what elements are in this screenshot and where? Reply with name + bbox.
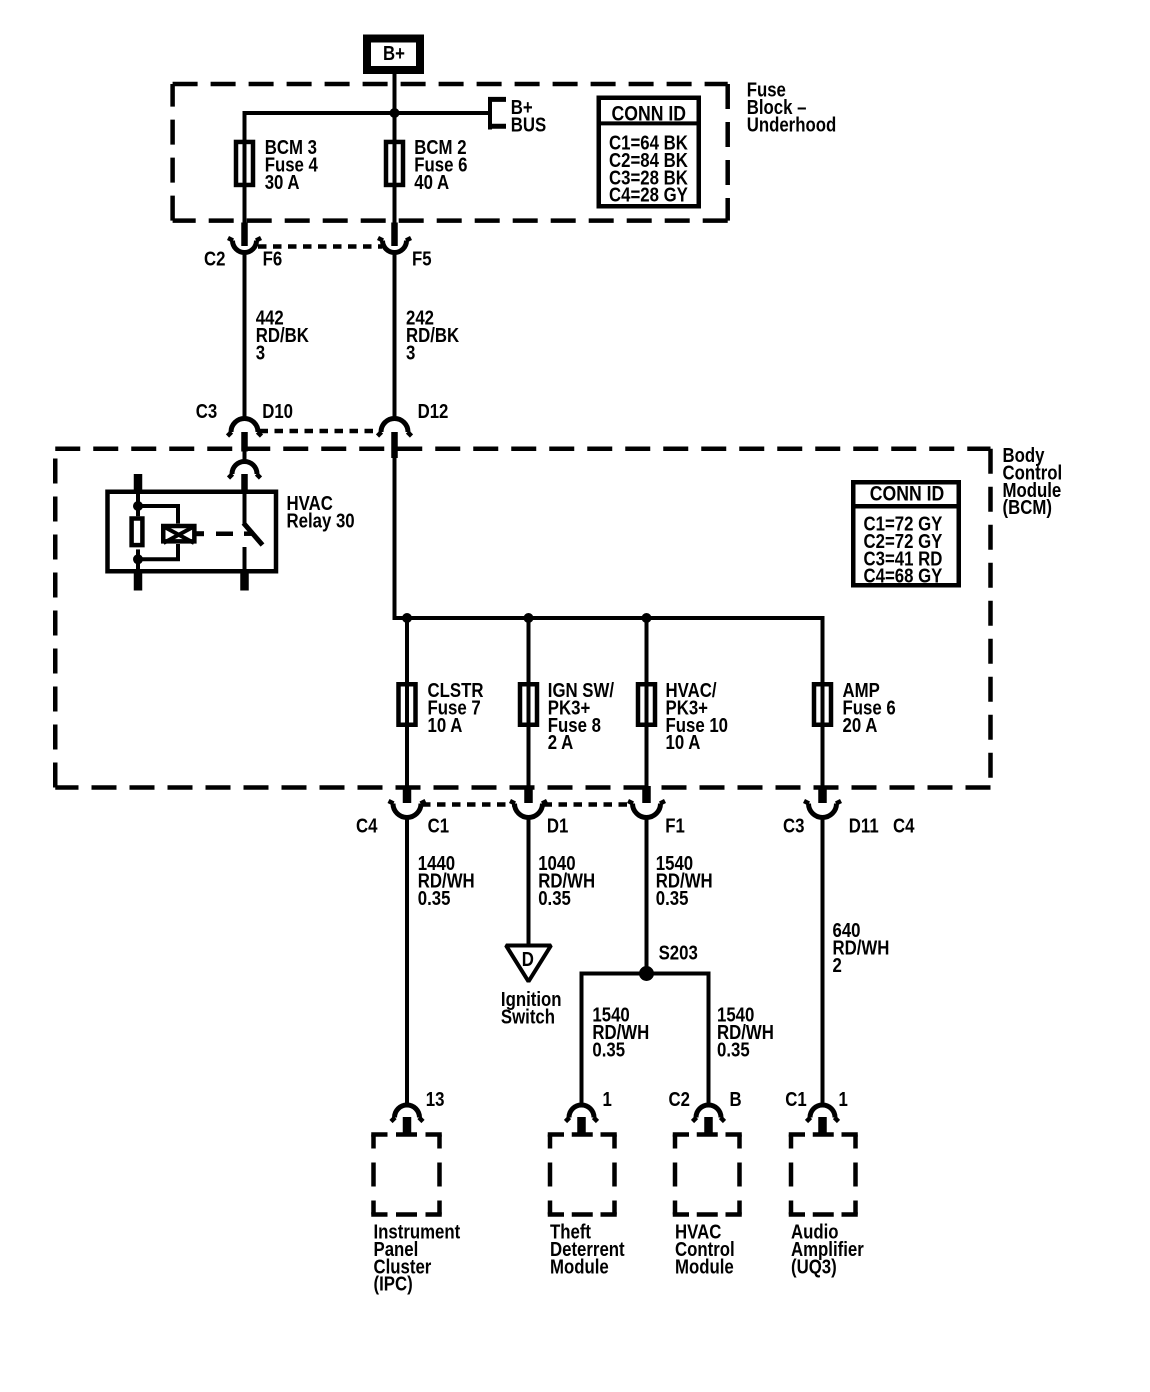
label CLSTR Fuse 7 10A xyxy=(428,678,484,736)
label 1540 RD/WH 0.35 right branch xyxy=(717,1003,774,1061)
module box HVAC control module xyxy=(673,1135,742,1215)
label 1440 RD/WH 0.35 xyxy=(418,851,475,909)
connector dome at theft deterrent module xyxy=(566,1105,598,1122)
connector pin F1 at BCM exit xyxy=(642,786,651,803)
svg-text:F6: F6 xyxy=(263,247,283,270)
label cavity B at HVAC control module xyxy=(730,1088,742,1111)
connector dome D10 xyxy=(228,419,262,437)
label audio amplifier (UQ3) xyxy=(791,1220,864,1278)
battery feed symbol B+ xyxy=(367,39,420,71)
junction node CLSTR branch xyxy=(402,613,412,623)
label instrument panel cluster xyxy=(374,1220,461,1295)
label S203 xyxy=(659,941,698,964)
svg-text:D: D xyxy=(522,948,534,971)
label D10 xyxy=(262,400,293,423)
label D11 (cavity) xyxy=(849,814,879,837)
connector dashed link C1-D1 xyxy=(422,802,514,807)
svg-text:C2: C2 xyxy=(204,247,225,270)
label 442 RD/BK 3 xyxy=(256,306,310,364)
svg-text:S203: S203 xyxy=(659,941,698,964)
label C1 (cavity) xyxy=(428,814,449,837)
wire branch to fuse HVAC/PK3+ xyxy=(645,618,649,787)
connector pin into HVAC control module xyxy=(704,1117,713,1136)
conn id table fuse block xyxy=(597,98,701,207)
splice S203 bar xyxy=(582,974,709,1106)
connector pin D10 into BCM xyxy=(241,432,248,452)
body control module dashed box xyxy=(55,449,990,788)
connector pin into audio amplifier (UQ3) xyxy=(818,1117,827,1136)
relay linkage dashed line xyxy=(197,531,253,536)
label D12 xyxy=(418,400,449,423)
svg-text:D11: D11 xyxy=(849,814,879,837)
relay coil resistor xyxy=(132,511,143,562)
connector pin into instrument panel cluster xyxy=(403,1117,412,1136)
connector dome at instrument panel cluster xyxy=(391,1105,423,1121)
module box instrument panel cluster xyxy=(371,1135,442,1215)
connector pin C1 at BCM exit xyxy=(403,786,412,803)
connector cup D1 xyxy=(510,801,547,818)
B+ BUS tap bracket xyxy=(488,97,506,130)
connector pin D12 into BCM xyxy=(391,432,398,458)
wire branch to fuse CLSTR xyxy=(405,618,409,787)
label BCM 3 Fuse 4 30 A xyxy=(265,135,319,193)
label C4 right (BCM conn) xyxy=(893,814,915,837)
junction node HVAC branch xyxy=(642,613,652,623)
label F5 xyxy=(412,247,432,270)
relay switch blade xyxy=(244,523,263,545)
relay coil junction top xyxy=(133,501,143,511)
label BCM 2 Fuse 6 40 A xyxy=(414,135,467,193)
label 1540 RD/WH 0.35 left branch xyxy=(592,1003,649,1061)
svg-text:D10: D10 xyxy=(262,400,293,423)
connector pin F6 at fuse block exit xyxy=(241,223,248,247)
wire 1040 RD/WH to ignition switch xyxy=(527,817,531,945)
relay coil wire upper xyxy=(136,489,140,511)
label IGN SW/PK3+ Fuse 8 2A xyxy=(548,678,614,753)
ignition switch triangle terminal D xyxy=(506,946,551,982)
relay coil pin top-left xyxy=(134,474,143,492)
svg-text:C3: C3 xyxy=(196,400,217,423)
fuse block underhood dashed box xyxy=(173,84,728,221)
connector pin D11 at BCM exit xyxy=(818,786,827,803)
svg-text:F5: F5 xyxy=(412,247,432,270)
svg-text:1: 1 xyxy=(839,1088,848,1111)
label B+ BUS xyxy=(511,96,546,136)
connector cup C1 xyxy=(389,801,426,818)
fuse AMP Fuse 6 20A xyxy=(814,684,831,725)
wire B+ feed down into fuse block xyxy=(393,74,397,113)
label D1 (cavity) xyxy=(547,814,568,837)
connector cup F1 xyxy=(628,801,665,818)
relay coil pin bottom-left xyxy=(134,572,143,591)
connector pin F5 at fuse block exit xyxy=(391,223,398,247)
connector dashed link D1-F1 xyxy=(544,802,633,807)
wire D12 feed down to BCM bus xyxy=(395,456,823,684)
wire AMP fuse branch xyxy=(821,682,825,787)
svg-text:C1: C1 xyxy=(785,1088,806,1111)
svg-text:C1=64 BKC2=84 BKC3=28 BKC4=28: C1=64 BKC2=84 BKC3=28 BKC4=28 GY xyxy=(609,131,688,206)
label HVAC Relay 30 xyxy=(287,491,355,531)
label 1540 RD/WH 0.35 xyxy=(656,851,713,909)
wire BCM2 fuse branch xyxy=(393,113,397,224)
relay switch wire lower xyxy=(243,547,247,574)
wire B+ bus horizontal xyxy=(245,113,489,142)
label cavity 1 at audio amplifier (UQ3) xyxy=(839,1088,848,1111)
wire 242 RD/BK xyxy=(393,253,397,420)
label Fuse Block Underhood xyxy=(747,78,837,136)
junction node IGN branch xyxy=(524,613,534,623)
connector dome at audio amplifier (UQ3) xyxy=(807,1105,839,1122)
svg-text:IgnitionSwitch: IgnitionSwitch xyxy=(501,988,562,1028)
label C3 (BCM conn) xyxy=(783,814,804,837)
label cavity 1 at theft deterrent module xyxy=(603,1088,612,1111)
module box theft deterrent module xyxy=(548,1135,617,1215)
svg-text:CONN ID: CONN ID xyxy=(870,482,944,506)
connector dashed link D10-D12 xyxy=(260,429,381,434)
svg-text:C3: C3 xyxy=(783,814,804,837)
wire BCM3 fuse branch xyxy=(243,111,247,224)
relay switch wire upper xyxy=(243,490,247,526)
connector pin D1 at BCM exit xyxy=(524,786,533,803)
wire 1440 RD/WH to IPC xyxy=(405,817,409,1105)
svg-text:1: 1 xyxy=(603,1088,612,1111)
label Body Control Module BCM xyxy=(1003,443,1063,518)
svg-text:C1=72 GYC2=72 GYC3=41 RDC4=68: C1=72 GYC2=72 GYC3=41 RDC4=68 GY xyxy=(864,512,943,587)
label connector C1 at audio amplifier (UQ3) xyxy=(785,1088,806,1111)
splice S203 node xyxy=(639,966,654,981)
label 1040 RD/WH 0.35 xyxy=(538,851,595,909)
label C4 (BCM conn) xyxy=(356,814,378,837)
connector dome D12 xyxy=(378,419,412,437)
label C2 xyxy=(204,247,225,270)
wire 1540 RD/WH to S203 xyxy=(645,817,649,973)
relay switch pin stub xyxy=(241,474,248,491)
module box audio amplifier (UQ3) xyxy=(789,1135,858,1215)
label AMP Fuse 6 20A xyxy=(843,678,896,736)
label connector C2 at HVAC control module xyxy=(669,1088,690,1111)
connector dashed link F6-F5 xyxy=(258,244,382,249)
svg-text:D1: D1 xyxy=(547,814,568,837)
label Ignition Switch xyxy=(501,988,562,1028)
svg-text:D12: D12 xyxy=(418,400,449,423)
label F1 (cavity) xyxy=(665,814,685,837)
svg-text:B+: B+ xyxy=(383,42,405,65)
wire relay socket (inner dome) below D10 xyxy=(243,452,247,463)
relay solenoid parallel branch wire xyxy=(138,506,178,559)
svg-text:C4: C4 xyxy=(356,814,378,837)
fuse BCM 2 Fuse 6 40A xyxy=(386,142,403,185)
label F6 xyxy=(263,247,283,270)
relay solenoid X-box xyxy=(163,526,194,543)
label HVAC/PK3+ Fuse 10 10A xyxy=(666,678,729,753)
fuse IGN SW/PK3+ Fuse 8 2A xyxy=(520,684,537,725)
wire branch to fuse IGN xyxy=(527,618,531,787)
relay socket dome xyxy=(229,461,261,478)
svg-text:B: B xyxy=(730,1088,742,1111)
relay coil wire lower exit xyxy=(136,557,140,574)
label C3 xyxy=(196,400,217,423)
fuse HVAC/PK3+ Fuse 10 10A xyxy=(638,684,655,725)
relay HVAC Relay 30 box xyxy=(108,492,277,572)
connector cup D11 xyxy=(804,801,841,818)
connector cup F5 xyxy=(378,238,411,253)
svg-text:13: 13 xyxy=(426,1088,445,1111)
connector pin into theft deterrent module xyxy=(577,1117,586,1136)
junction node at B+ drop xyxy=(390,108,400,118)
label HVAC control module xyxy=(675,1220,735,1278)
connector dome at HVAC control module xyxy=(693,1105,725,1122)
relay coil junction bottom xyxy=(133,554,143,564)
label theft deterrent module xyxy=(550,1220,625,1278)
relay switch pin bottom-right xyxy=(240,572,249,591)
svg-text:F1: F1 xyxy=(665,814,685,837)
svg-text:C2: C2 xyxy=(669,1088,690,1111)
svg-text:CONN ID: CONN ID xyxy=(612,102,686,126)
conn id table BCM xyxy=(851,482,961,587)
wire 640 RD/WH to audio amplifier xyxy=(821,817,825,1105)
connector cup F6 xyxy=(228,238,261,253)
label cavity 13 at instrument panel cluster xyxy=(426,1088,445,1111)
fuse BCM 3 Fuse 4 30A xyxy=(236,142,253,185)
label 640 RD/WH 2 xyxy=(833,918,890,976)
label 242 RD/BK 3 xyxy=(406,306,460,364)
svg-text:C1: C1 xyxy=(428,814,449,837)
svg-text:C4: C4 xyxy=(893,814,915,837)
wire 442 RD/BK xyxy=(243,253,247,420)
fuse CLSTR Fuse 7 10A xyxy=(399,684,416,725)
